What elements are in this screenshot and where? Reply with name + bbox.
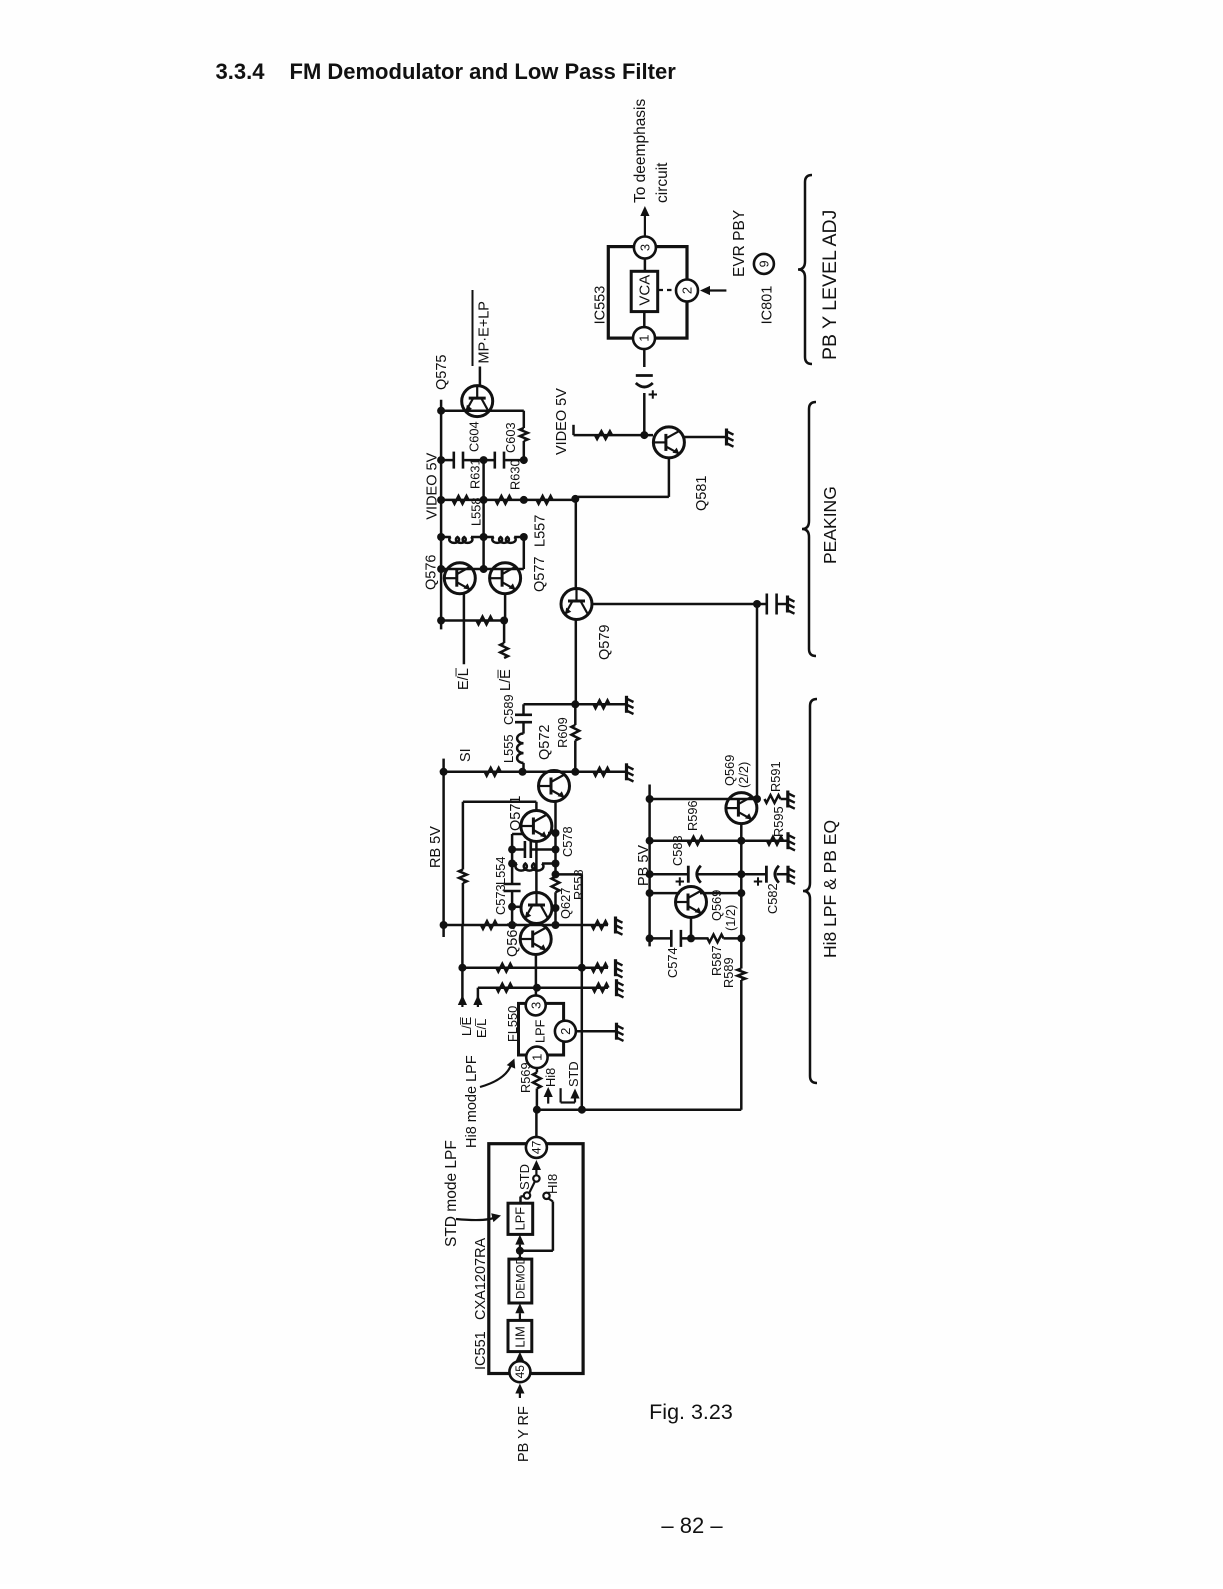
wire node47 to pin47 bbox=[535, 1110, 538, 1137]
svg-text:L558: L558 bbox=[469, 498, 484, 526]
capacitor C583 polarized bbox=[687, 866, 690, 883]
svg-text:Q576: Q576 bbox=[424, 555, 440, 590]
arrow pin45 to LIM bbox=[519, 1360, 521, 1363]
node R596-x741 bbox=[737, 837, 745, 845]
node row925-x512 bbox=[508, 921, 516, 929]
svg-text:Q575: Q575 bbox=[434, 355, 450, 390]
svg-text:R569: R569 bbox=[518, 1062, 533, 1093]
pin 2 IC553 bbox=[676, 280, 698, 302]
left chain x512 bbox=[511, 834, 514, 884]
ground (R591) bbox=[786, 791, 789, 808]
svg-text:C604: C604 bbox=[467, 421, 482, 452]
wire R558 tap right bbox=[556, 873, 582, 876]
wire LPF to STD contact bbox=[519, 1197, 522, 1204]
wire Q579 collector row bbox=[592, 603, 757, 606]
resistor R631 bbox=[453, 496, 469, 504]
wire Q571 collector stub bbox=[535, 802, 538, 811]
IC551 block outline bbox=[489, 1144, 583, 1374]
VIDEO 5V stub (right) bbox=[572, 425, 575, 435]
wire right branch upper bbox=[523, 411, 526, 428]
node PB5V-938 bbox=[646, 934, 654, 942]
wire pin3 to VCA bbox=[644, 259, 647, 272]
svg-text:VCA: VCA bbox=[637, 275, 654, 306]
svg-text:CXA1207RA: CXA1207RA bbox=[473, 1237, 489, 1320]
wire Q572 emitter chain bbox=[554, 801, 557, 877]
svg-text:LPF: LPF bbox=[533, 1019, 548, 1043]
wire Q569-2 emitter chain bbox=[740, 823, 743, 969]
svg-text:E/L̅: E/L̅ bbox=[456, 667, 472, 690]
resistor R609 bbox=[574, 704, 577, 725]
wire Q581 to peaking node bbox=[575, 496, 669, 499]
node PB5V-893 bbox=[646, 889, 654, 897]
node C574-Q569 emitter bbox=[687, 934, 695, 942]
svg-text:(2/2): (2/2) bbox=[736, 762, 751, 788]
wire bottom row bbox=[441, 619, 504, 622]
resistor (row967 right) bbox=[592, 964, 608, 972]
wire Q569-1 emitter down bbox=[690, 917, 693, 938]
svg-text:2: 2 bbox=[558, 1028, 573, 1035]
svg-text:Q571: Q571 bbox=[508, 796, 524, 831]
RB 5V rail bbox=[442, 772, 445, 937]
svg-text:1: 1 bbox=[530, 1054, 545, 1061]
svg-text:EVR PBY: EVR PBY bbox=[731, 210, 748, 277]
wire Q575 row bbox=[441, 409, 524, 412]
arrow switch to pin47 bbox=[535, 1170, 537, 1175]
capacitor polarized C (VCA input) bbox=[636, 374, 653, 377]
wire L555 to SI row bbox=[522, 763, 525, 772]
node right-C603 bbox=[520, 456, 528, 464]
svg-text:PEAKING: PEAKING bbox=[820, 486, 840, 564]
svg-text:47: 47 bbox=[530, 1140, 544, 1154]
svg-text:45: 45 bbox=[513, 1365, 527, 1379]
resistor (right branch) bbox=[520, 428, 528, 441]
resistor (SI upper row) bbox=[594, 700, 610, 708]
svg-text:L557: L557 bbox=[533, 515, 549, 547]
svg-text:L555: L555 bbox=[501, 735, 516, 763]
node R569 junction bbox=[533, 1106, 541, 1114]
ground (row967) bbox=[614, 959, 617, 976]
left loop wire lower bbox=[462, 883, 465, 925]
wire C578 row bbox=[512, 848, 524, 851]
transistor Q579 bbox=[561, 589, 592, 620]
capacitor C604 bbox=[452, 452, 455, 469]
wire Q564 emitter to FL550 pin3 bbox=[535, 954, 538, 996]
ground (SI row) bbox=[625, 763, 628, 780]
pin 1 IC553 bbox=[633, 327, 655, 349]
wire Q627 right lead bbox=[551, 907, 556, 910]
svg-text:Hi8: Hi8 bbox=[543, 1068, 558, 1087]
svg-text:R558: R558 bbox=[571, 869, 586, 900]
DEMOD box bbox=[509, 1259, 532, 1303]
ground (RB5V row) bbox=[614, 917, 617, 934]
resistor R558 bbox=[552, 877, 560, 893]
wire L row bbox=[441, 536, 451, 539]
node Q569-2 collector bbox=[753, 795, 761, 803]
switch Hi8 contact bbox=[543, 1193, 549, 1199]
svg-text:3.3.4: 3.3.4 bbox=[216, 59, 266, 84]
node demod-lpf tap bbox=[516, 1247, 524, 1255]
svg-text:Q572: Q572 bbox=[537, 725, 553, 760]
node Q627 right bbox=[552, 904, 560, 912]
node row925-x5555 bbox=[552, 921, 560, 929]
wire R row bbox=[441, 499, 575, 502]
wire pin1 IC553 down bbox=[643, 349, 646, 367]
svg-text:C578: C578 bbox=[560, 826, 575, 857]
wire Q569-1 base row bbox=[650, 892, 680, 895]
ground (row987) bbox=[615, 979, 618, 996]
svg-text:R589: R589 bbox=[721, 957, 736, 988]
resistor (RB5V row left) bbox=[481, 921, 497, 929]
wire R595 row bbox=[741, 839, 787, 842]
resistor (peaking feed) bbox=[537, 496, 553, 504]
svg-text:Fig. 3.23: Fig. 3.23 bbox=[649, 1400, 733, 1424]
capacitor (peaking) bbox=[765, 594, 768, 615]
pin 3 IC553 bbox=[634, 237, 656, 259]
svg-text:circuit: circuit bbox=[654, 162, 671, 203]
wire C604-C603 bbox=[464, 459, 494, 462]
wire C589 to L555 bbox=[522, 723, 525, 733]
switch common circle bbox=[533, 1175, 539, 1181]
wire SI row bbox=[444, 771, 576, 774]
transistor Q569 (1/2) bbox=[676, 887, 707, 918]
left chain x512 lower bbox=[511, 892, 514, 925]
wire x741 down bbox=[740, 980, 743, 1110]
ground (C582) bbox=[786, 866, 789, 883]
svg-text:C603: C603 bbox=[503, 422, 518, 453]
svg-text:9: 9 bbox=[757, 260, 771, 267]
wire Q627 left lead bbox=[512, 906, 522, 909]
node mid-R bbox=[480, 496, 488, 504]
wire Q579 emitter down bbox=[575, 620, 578, 705]
wire tap x582 bbox=[581, 874, 584, 1109]
svg-text:PB Y RF: PB Y RF bbox=[516, 1406, 532, 1462]
svg-text:Q569: Q569 bbox=[709, 890, 724, 921]
svg-text:VIDEO 5V: VIDEO 5V bbox=[554, 388, 570, 455]
node C589 top corner bbox=[522, 704, 525, 714]
svg-text:LPF: LPF bbox=[513, 1207, 528, 1231]
coil L555 bbox=[517, 734, 523, 763]
svg-text:Hi8 LPF & PB EQ: Hi8 LPF & PB EQ bbox=[820, 820, 840, 958]
arrow PB Y RF into pin45 bbox=[519, 1394, 521, 1399]
svg-text:C589: C589 bbox=[501, 694, 516, 725]
node C578 left bbox=[508, 846, 516, 854]
wire C582 row bbox=[741, 873, 765, 876]
resistor (Q581 base) bbox=[595, 431, 612, 439]
wire C604 row left bbox=[441, 459, 453, 462]
wire top row (SI upper) bbox=[524, 703, 627, 706]
curved arrow Hi8 mode LPF bbox=[480, 1062, 512, 1087]
transistor Q581 bbox=[653, 427, 684, 458]
resistor R569 bbox=[533, 1073, 541, 1089]
svg-text:FM Demodulator and Low Pass Fi: FM Demodulator and Low Pass Filter bbox=[290, 59, 677, 84]
pin 47 IC551 bbox=[526, 1137, 547, 1158]
wire Q581 emitter to ground bbox=[685, 436, 727, 439]
pin 45 IC551 bbox=[509, 1361, 530, 1382]
arrow Hi8 marker bbox=[547, 1097, 549, 1104]
node L/E junction bbox=[500, 617, 508, 625]
wire VIDEO5V to Q581 base bbox=[574, 434, 654, 437]
circled 9 IC801 pin bbox=[754, 254, 774, 274]
svg-text:L/E̅: L/E̅ bbox=[459, 1017, 474, 1036]
wire Q569-1 collector lead bbox=[700, 892, 741, 895]
node right-R bbox=[520, 496, 528, 504]
resistor R630 bbox=[495, 496, 511, 504]
wire E/L-bar input line bbox=[477, 988, 480, 1004]
node peaking junction bbox=[571, 495, 579, 503]
node rail-Q575 bbox=[437, 407, 445, 415]
resistor R591 bbox=[765, 795, 781, 803]
svg-text:L/E̅: L/E̅ bbox=[498, 669, 514, 691]
svg-text:R596: R596 bbox=[685, 800, 700, 831]
resistor (RB5V row right) bbox=[592, 921, 608, 929]
wire pin2 to ground bbox=[576, 1030, 616, 1033]
svg-text:HI8: HI8 bbox=[545, 1174, 560, 1194]
wire cap to Q581 node bbox=[643, 393, 646, 435]
svg-text:R631: R631 bbox=[468, 458, 483, 489]
resistor R596 bbox=[688, 837, 704, 845]
curved arrow STD mode LPF bbox=[456, 1217, 497, 1221]
wire Q575 base up bbox=[479, 367, 482, 387]
ground (Q581) bbox=[725, 429, 728, 446]
node rail-C604 bbox=[437, 456, 445, 464]
svg-text:IC553: IC553 bbox=[593, 286, 609, 325]
node C578 right bbox=[552, 846, 560, 854]
wire R569 to node47 bbox=[536, 1089, 539, 1110]
transistor Q564 bbox=[520, 924, 551, 955]
svg-text:Hi8 mode LPF: Hi8 mode LPF bbox=[464, 1055, 480, 1148]
svg-text:MP·E+LP: MP·E+LP bbox=[477, 301, 493, 363]
svg-text:RB 5V: RB 5V bbox=[428, 826, 444, 868]
node row967-x582 bbox=[578, 964, 586, 972]
svg-text:– 82 –: – 82 – bbox=[661, 1513, 723, 1538]
node Q571 emitter bbox=[552, 829, 560, 837]
capacitor C574 bbox=[670, 930, 673, 947]
svg-text:3: 3 bbox=[638, 244, 653, 251]
svg-text:C582: C582 bbox=[765, 883, 780, 914]
wire right branch to Q577 bbox=[523, 537, 526, 569]
coil L558 bbox=[449, 537, 472, 543]
node right-L bbox=[520, 533, 528, 541]
svg-text:DEMOD: DEMOD bbox=[515, 1256, 527, 1299]
resistor (L/E feed) bbox=[500, 643, 508, 658]
svg-text:R591: R591 bbox=[768, 761, 783, 792]
wire pin1 to R569 bbox=[536, 1068, 539, 1073]
svg-text:C573: C573 bbox=[493, 884, 508, 915]
wire R558 lower bbox=[554, 892, 557, 925]
wire VCA to pin1 bbox=[643, 312, 646, 328]
coil L557 bbox=[492, 537, 515, 543]
node Q581 base junction bbox=[640, 431, 648, 439]
wire SI row right bbox=[575, 771, 626, 774]
svg-text:(1/2): (1/2) bbox=[723, 905, 738, 931]
ground (SI upper row) bbox=[625, 696, 628, 713]
wire Q581 collector down bbox=[668, 459, 671, 497]
node Q627 base tap bbox=[508, 903, 516, 911]
svg-text:Q581: Q581 bbox=[694, 476, 710, 511]
resistor (left loop) bbox=[459, 870, 467, 884]
wire Hi8 bypass bbox=[520, 1250, 553, 1253]
wire L554 row bbox=[512, 862, 517, 865]
LIM box bbox=[508, 1320, 532, 1351]
resistor (bottom row) bbox=[477, 617, 493, 625]
node Q569-1 collector x741 bbox=[737, 889, 745, 897]
resistor R595 bbox=[767, 837, 783, 845]
svg-text:2: 2 bbox=[680, 287, 695, 294]
arrow DEMOD to LPF bbox=[519, 1245, 521, 1260]
brace Hi8 LPF & PB EQ bbox=[803, 699, 817, 1083]
dashed control line VCA to pin2 bbox=[659, 289, 676, 291]
switch lever bbox=[529, 1181, 535, 1193]
svg-text:IC801: IC801 bbox=[760, 286, 776, 325]
node peaking cap bbox=[753, 600, 761, 608]
ground (FL550 pin2) bbox=[615, 1023, 618, 1040]
wire bottom long row bbox=[537, 1108, 741, 1111]
resistor R589 bbox=[737, 969, 745, 981]
svg-text:PB Y LEVEL ADJ: PB Y LEVEL ADJ bbox=[819, 210, 841, 360]
svg-text:1: 1 bbox=[637, 334, 652, 341]
wire Q576-Q577 row bbox=[441, 568, 524, 571]
wire Q571-Q627 base bbox=[535, 841, 538, 894]
node PB5V-799 bbox=[646, 795, 654, 803]
node PB5V-874 bbox=[646, 870, 654, 878]
transistor Q577 bbox=[490, 563, 521, 594]
wire x757 peaking link bbox=[756, 604, 759, 799]
wire Q577 emitter down bbox=[504, 594, 507, 621]
LPF box bbox=[508, 1203, 533, 1234]
wire C603 right bbox=[505, 459, 524, 462]
node PB5V-840 bbox=[646, 837, 654, 845]
node R609 top bbox=[571, 700, 579, 708]
svg-text:Q627: Q627 bbox=[558, 888, 573, 919]
node R558 tap bbox=[552, 870, 560, 878]
svg-text:Q569: Q569 bbox=[722, 755, 737, 786]
brace PB Y LEVEL ADJ bbox=[798, 175, 812, 364]
svg-text:IC551: IC551 bbox=[473, 1331, 489, 1370]
transistor Q627 bbox=[521, 893, 552, 924]
resistor (SI row) bbox=[485, 768, 501, 776]
capacitor C578 bbox=[524, 841, 527, 858]
wire Q571 base link bbox=[512, 833, 522, 836]
svg-text:E/L̅: E/L̅ bbox=[474, 1018, 489, 1038]
arrow to deemphasis circuit bbox=[644, 216, 646, 237]
wire PB5V bottom row bbox=[650, 937, 671, 940]
arrow L/E-bar bbox=[461, 1005, 463, 1007]
arrow STD marker bbox=[559, 1088, 561, 1102]
wire RB5V row bbox=[444, 924, 608, 927]
node SI-R609 bbox=[571, 768, 579, 776]
node L554 right bbox=[552, 860, 560, 868]
FL550 box bbox=[519, 1003, 564, 1055]
node SI-L555 bbox=[519, 768, 527, 776]
transistor Q569 (2/2) bbox=[726, 793, 757, 824]
svg-text:FL550: FL550 bbox=[505, 1006, 520, 1042]
resistor (row967 left) bbox=[496, 964, 512, 972]
wire R596 row bbox=[650, 839, 742, 842]
node row987 pin3 line bbox=[533, 984, 541, 992]
svg-text:R630: R630 bbox=[508, 459, 523, 490]
wire Q571 top loop bbox=[463, 801, 537, 804]
node rail-R631 bbox=[437, 496, 445, 504]
svg-text:STD: STD bbox=[517, 1164, 532, 1190]
svg-text:STD mode LPF: STD mode LPF bbox=[443, 1140, 460, 1247]
wire row 987 bbox=[478, 986, 608, 989]
left loop wire upper bbox=[462, 802, 465, 870]
mid vertical line bbox=[482, 460, 485, 569]
pin 3 FL550 bbox=[526, 995, 546, 1015]
node mid transistors bbox=[480, 565, 488, 573]
svg-text:L554: L554 bbox=[493, 857, 508, 885]
svg-text:C583: C583 bbox=[670, 835, 685, 866]
switch STD contact bbox=[524, 1192, 530, 1198]
capacitor C582 polarized bbox=[765, 866, 768, 883]
brace PEAKING bbox=[802, 402, 816, 656]
node R587-x741 bbox=[737, 934, 745, 942]
ground (R595) bbox=[786, 832, 789, 849]
VCA box U-IC553 bbox=[631, 271, 658, 311]
resistor (SI row right) bbox=[594, 768, 610, 776]
capacitor C589 bbox=[515, 713, 532, 716]
arrow EVR PBY into pin2 bbox=[710, 289, 726, 291]
wire Q576 emitter down to E/L bbox=[463, 594, 466, 665]
node RB5V row bbox=[440, 921, 448, 929]
wire C583 row bbox=[650, 873, 688, 876]
node rail-Q576 bbox=[437, 565, 445, 573]
coil L554 bbox=[515, 864, 543, 871]
pin 1 FL550 bbox=[526, 1047, 547, 1068]
arrow E/L-bar bbox=[477, 1005, 479, 1007]
svg-text:3: 3 bbox=[528, 1002, 543, 1009]
resistor (row987 left) bbox=[496, 984, 512, 992]
svg-text:Q577: Q577 bbox=[532, 557, 548, 592]
wire row 967 bbox=[462, 966, 608, 969]
svg-text:R595: R595 bbox=[771, 806, 786, 837]
svg-text:Q579: Q579 bbox=[597, 625, 613, 660]
resistor (row987 right) bbox=[593, 984, 609, 992]
VIDEO 5V rail bbox=[440, 400, 443, 630]
SI stub bbox=[442, 759, 445, 772]
transistor Q572 bbox=[539, 771, 570, 802]
node mid-C604 bbox=[480, 456, 488, 464]
svg-text:LIM: LIM bbox=[513, 1326, 528, 1347]
transistor Q576 bbox=[444, 563, 475, 594]
node rail-L558 bbox=[437, 533, 445, 541]
capacitor C573 bbox=[504, 883, 521, 886]
capacitor C603 bbox=[493, 452, 496, 469]
pin 2 FL550 bbox=[555, 1021, 576, 1042]
svg-text:R609: R609 bbox=[555, 717, 570, 748]
node mid-L bbox=[480, 533, 488, 541]
wire peaking node down to Q579 bbox=[575, 499, 578, 589]
transistor Q575 bbox=[462, 386, 493, 417]
svg-text:To deemphasis: To deemphasis bbox=[632, 98, 649, 203]
svg-text:C574: C574 bbox=[665, 947, 680, 978]
svg-text:STD: STD bbox=[566, 1061, 581, 1087]
resistor R587 bbox=[708, 935, 724, 943]
node C583-x741 bbox=[737, 870, 745, 878]
wire Q569-2 collector row bbox=[650, 798, 757, 801]
node x582 bottom bbox=[578, 1106, 586, 1114]
svg-text:SI: SI bbox=[458, 748, 474, 762]
wire L/E-bar input line bbox=[461, 925, 464, 1004]
IC553 block outline bbox=[608, 247, 687, 339]
wire right branch lower bbox=[523, 441, 526, 460]
PB 5V rail bbox=[648, 785, 651, 947]
ground (peaking cap) bbox=[786, 596, 789, 613]
node rail-bottom row bbox=[437, 617, 445, 625]
wire L/E feed bbox=[503, 621, 506, 644]
node row967 left bbox=[458, 964, 466, 972]
arrow LIM to DEMOD bbox=[519, 1313, 521, 1320]
